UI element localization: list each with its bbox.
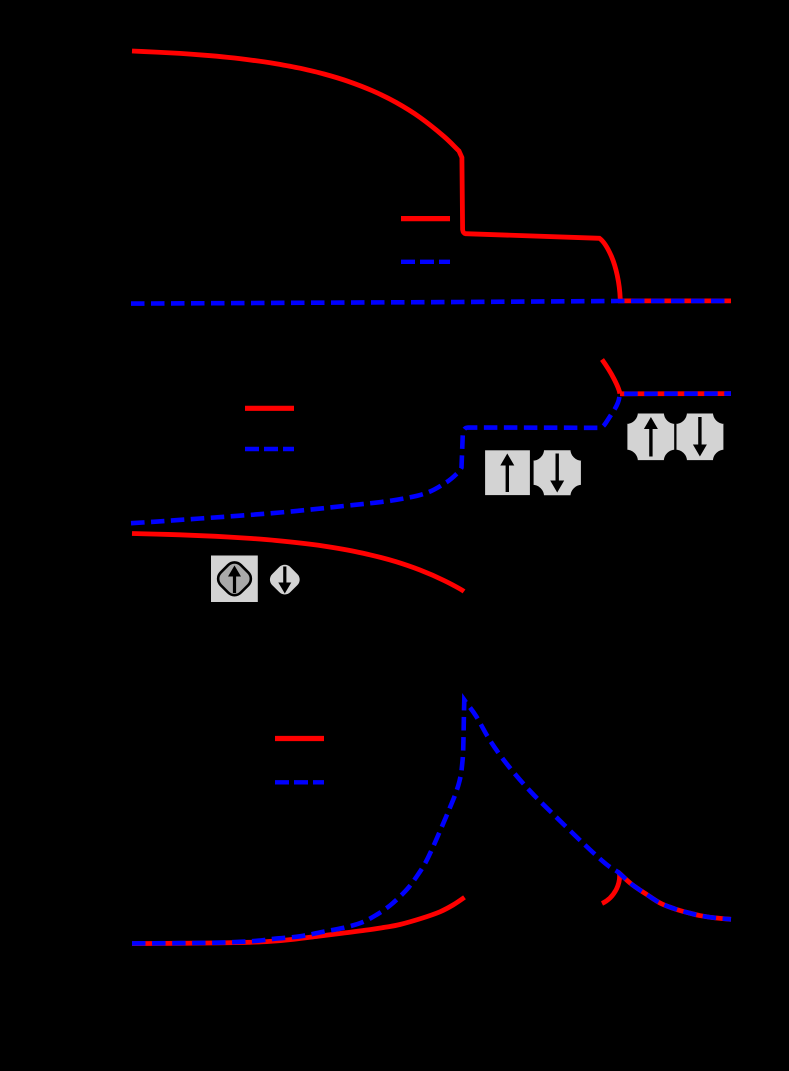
gray square site, bottom panel symbol bbox=[210, 555, 259, 604]
spin-down concave site box, middle pair bbox=[533, 449, 583, 496]
spin-up square site box, middle pair bbox=[484, 449, 531, 496]
legend panel 2: red solid sample bbox=[245, 406, 294, 411]
light rounded diamond symbol bbox=[265, 560, 305, 600]
spin-up arrow in right pair box 1 bbox=[644, 417, 658, 457]
spin-up concave site box, right pair bbox=[626, 412, 675, 461]
red solid curve: high-spin branch, panel 1 bbox=[132, 51, 731, 301]
spin-down arrow in concave box bbox=[550, 454, 564, 493]
blue dashed baseline curve, panel 1 bbox=[131, 301, 731, 304]
blue dashed cusp curve, panel 3 bbox=[132, 700, 731, 943]
legend panel 2: blue dashed sample bbox=[245, 447, 294, 451]
blue dashed curve, panel 2 bbox=[131, 394, 731, 524]
legend panel 3: red solid sample bbox=[275, 736, 324, 741]
down arrow in light diamond bbox=[278, 567, 291, 594]
red solid overlapped segment right, panel 2 bbox=[620, 391, 731, 396]
legend panel 1: blue dashed sample bbox=[401, 260, 450, 264]
dark rounded diamond inside square bbox=[214, 559, 254, 599]
legend panel 3: blue dashed sample bbox=[275, 780, 324, 784]
up arrow in dark diamond bbox=[228, 566, 241, 594]
legend panel 1: red solid sample bbox=[401, 216, 450, 221]
red solid lower branch, panel 3 bbox=[132, 897, 465, 943]
red solid upper branch, panel 3 bbox=[132, 534, 464, 592]
spin-down arrow in right pair box 2 bbox=[693, 417, 707, 457]
red solid fold arc right, panel 3 bbox=[602, 874, 620, 904]
red solid overlapped segment right, panel 3 bbox=[618, 872, 731, 919]
spin-down concave site box, right pair bbox=[675, 412, 724, 461]
red solid short arc, panel 2 bbox=[602, 360, 620, 394]
spin-up arrow in square box bbox=[500, 454, 514, 493]
